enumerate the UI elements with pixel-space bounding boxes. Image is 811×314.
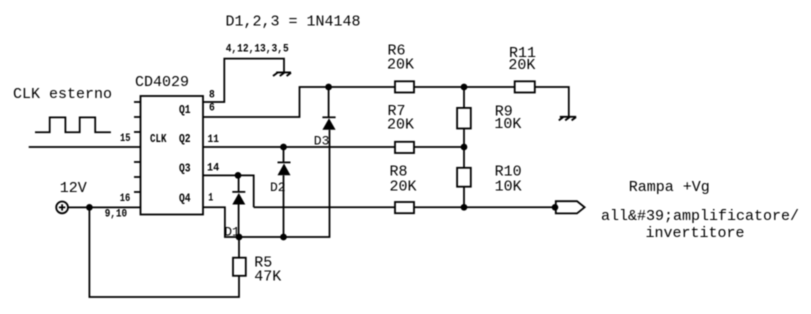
svg-text:9,10: 9,10 [105,209,127,221]
wire: row 3 to R8 [254,206,395,208]
svg-text:Rampa +Vg: Rampa +Vg [629,179,710,196]
resistor R7 [395,142,414,153]
junction: D1 anode node [236,234,243,241]
wire: R7 to node B [414,146,464,148]
junction: D2 anode node [280,234,287,241]
wire: node B to R10 [463,147,465,168]
junction: D2 cathode node [280,144,287,151]
junction: D1 cathode node [235,172,242,179]
svg-text:8: 8 [209,89,215,101]
svg-text:6: 6 [209,103,215,115]
ground: top chassis ground [273,72,291,76]
diode D2 [283,147,285,162]
svg-text:10K: 10K [494,116,521,133]
junction: node C [461,204,468,211]
svg-text:Q4: Q4 [179,192,191,206]
wire: 12V to IC pins 16,9,10 [68,206,141,208]
svg-text:Q2: Q2 [179,132,191,146]
svg-text:CLK esterno: CLK esterno [13,86,112,103]
svg-text:Q3: Q3 [179,162,191,176]
resistor R8 [395,202,414,213]
wire: R11 to ground [535,87,569,117]
svg-text:all&#39;amplificatore/: all&#39;amplificatore/ [601,208,799,225]
svg-text:11: 11 [208,134,220,146]
svg-text:20K: 20K [387,117,414,134]
svg-text:14: 14 [207,163,220,175]
wire: R9 to node B [463,129,465,148]
svg-text:47K: 47K [254,268,281,285]
svg-text:D2: D2 [270,180,286,195]
diode D1 [238,175,240,192]
clock waveform symbol [35,117,111,132]
svg-text:20K: 20K [387,57,414,74]
diode D3 [322,116,335,118]
svg-text:CD4029: CD4029 [135,74,189,91]
output connector: Rampa +Vg [556,201,585,213]
svg-text:20K: 20K [390,178,417,195]
svg-text:4,12,13,3,5: 4,12,13,3,5 [226,43,289,55]
svg-text:CLK: CLK [150,132,167,146]
wire: CLK input to pin 15 [29,146,141,148]
wire: R10 to node C [463,187,465,208]
junction: node A [461,84,468,91]
svg-text:invertitore: invertitore [646,225,745,242]
junction: node B [461,144,468,151]
wire: node A to R9 [463,87,465,108]
resistor R6 [395,81,414,92]
junction: D3 cathode node [325,84,332,91]
svg-text:15: 15 [120,133,131,145]
wire: Q3 pin 14 jog down to row 3 [203,175,254,207]
wire: Q2 row to R7 [203,146,395,148]
wire: D1 anode node to R5 [238,237,240,258]
svg-text:20K: 20K [508,57,535,74]
wire: Q4 pin 1 down to diode anode bus [203,130,330,237]
IC left pin stubs [134,102,141,192]
wire: 12V down to R5 bottom [89,207,239,297]
resistor R5 [233,258,246,276]
svg-text:10K: 10K [495,178,522,195]
svg-text:D1,2,3 = 1N4148: D1,2,3 = 1N4148 [226,13,361,30]
wire: R8 to node C [414,206,555,208]
12V source symbol [56,202,68,214]
ground: right chassis ground [559,117,576,121]
resistor R9 [457,108,471,129]
IC U1 CD4029 body [141,96,204,215]
resistor R11 [515,81,535,92]
svg-text:1: 1 [208,193,213,205]
wire: pin 8 up to pins 4,12,13,3,5 rail [203,59,284,102]
wire: R6 to node A [414,86,515,88]
wire: Q1 row to R6 [329,86,395,88]
svg-text:Q1: Q1 [179,103,191,117]
svg-text:12V: 12V [60,180,87,197]
svg-text:16: 16 [120,193,131,205]
junction: 12V node [86,204,93,211]
wire: Q1 pin 6 riser to top row [203,87,329,117]
resistor R10 [457,168,471,187]
